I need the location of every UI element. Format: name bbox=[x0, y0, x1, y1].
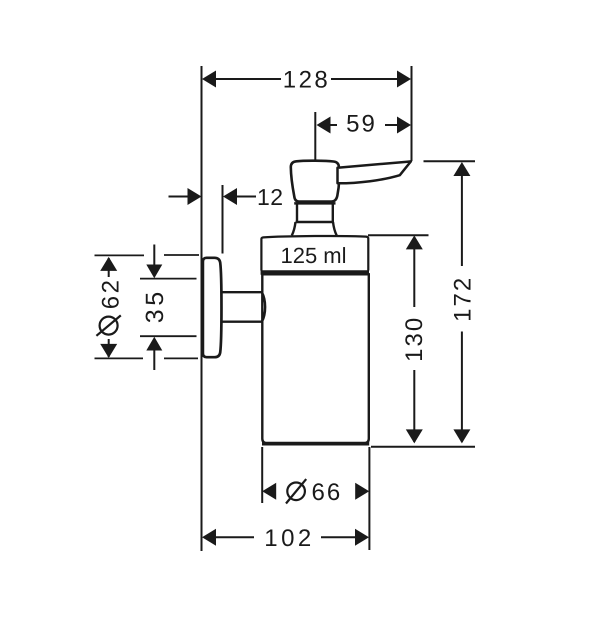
dimension 102 bbox=[202, 525, 369, 552]
dimension 172 bbox=[449, 162, 476, 443]
extension lines below body (D66 / 102) bbox=[261, 447, 263, 503]
bottle body bbox=[262, 274, 369, 443]
svg-text:62: 62 bbox=[98, 277, 125, 309]
extension line 172 top bbox=[424, 160, 476, 162]
dimension 130 bbox=[401, 235, 428, 443]
svg-text:102: 102 bbox=[264, 525, 315, 552]
svg-text:130: 130 bbox=[401, 316, 428, 362]
dimension D62 bbox=[96, 257, 124, 358]
dimension 59 bbox=[315, 111, 411, 161]
extension line bottom (130/172) bbox=[371, 446, 475, 448]
wall plate (side view) bbox=[203, 258, 222, 357]
dimension 35 bbox=[141, 245, 169, 371]
collar thick bottom line bbox=[261, 270, 369, 274]
pump head U-shape bbox=[291, 161, 339, 202]
svg-text:128: 128 bbox=[283, 67, 331, 94]
dimension 35 extension lines bbox=[140, 279, 197, 337]
extension line right top (for 128/59) bbox=[411, 66, 413, 161]
svg-text:35: 35 bbox=[141, 288, 169, 323]
pump lever (spout) bbox=[338, 161, 411, 183]
dimension 12 bbox=[169, 184, 284, 254]
dimension D62 extension lines bbox=[95, 255, 200, 358]
extension line 130 top bbox=[368, 234, 429, 236]
svg-text:12: 12 bbox=[257, 184, 284, 210]
pump neck bbox=[294, 203, 335, 222]
dimension D66 bbox=[262, 479, 369, 506]
svg-text:66: 66 bbox=[312, 479, 343, 506]
svg-text:125 ml: 125 ml bbox=[280, 243, 346, 268]
svg-text:59: 59 bbox=[346, 111, 377, 138]
body thick bottom line bbox=[262, 442, 369, 446]
wall line (left extension line) bbox=[201, 66, 203, 551]
mounting arm bbox=[222, 292, 266, 322]
svg-text:172: 172 bbox=[449, 276, 476, 322]
pump flare bbox=[292, 222, 337, 236]
dimension 128 bbox=[202, 67, 411, 94]
bottle collar band with 125 ml label bbox=[261, 236, 368, 271]
